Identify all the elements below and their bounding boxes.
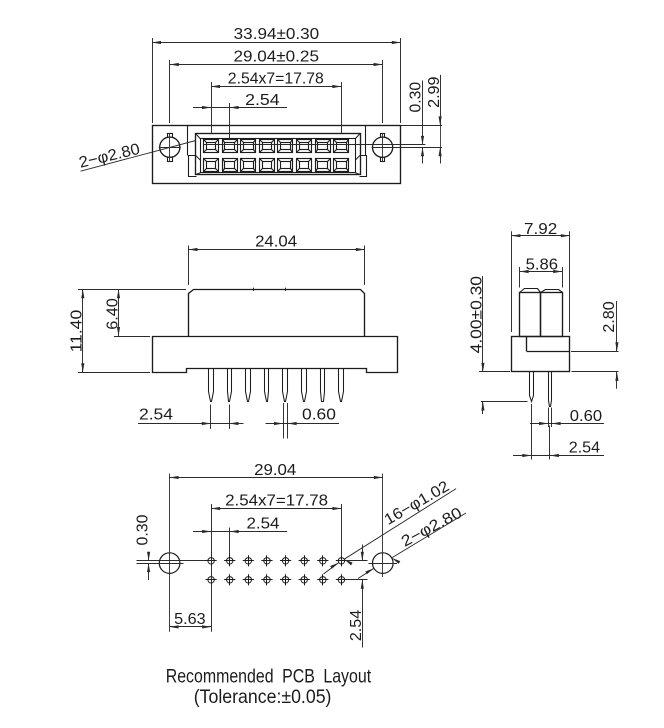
svg-text:7.92: 7.92 [524,221,557,238]
dimension 2.54x7=17.78 [211,82,213,133]
contact pin row2 col1 [204,159,219,172]
dimension 11.40 vertical [78,289,186,291]
contact pin row1 col5 [278,140,293,153]
svg-text:0.60: 0.60 [302,406,336,423]
dimension 4.00±0.30 vertical [479,371,510,373]
pcb pad row2 col4 [261,574,272,585]
dimension 2.99 vertical [440,75,442,126]
svg-text:11.40: 11.40 [69,310,86,353]
pcb right mounting hole [373,553,394,574]
dimension 2.54 pin pitch front [210,405,212,430]
front view insulator body [189,290,365,337]
pcb dimension 5.63 [170,626,212,628]
pcb pad row1 col6 [299,555,310,566]
front view solder pins [209,369,214,402]
svg-text:2.54: 2.54 [569,439,601,456]
pcb dimension 2.54 vertical [346,560,368,562]
row-1 pin centerline reference [204,144,426,146]
dimension 7.92 [511,231,513,332]
svg-text:2.54x7=17.78: 2.54x7=17.78 [228,70,324,87]
pcb left hole crosshair [137,563,184,565]
svg-text:4.00±0.30: 4.00±0.30 [469,276,486,353]
left mounting hole slot [168,134,173,162]
pcb pad row-1 centerline reference [137,560,212,562]
pcb pad row1 col5 [280,555,291,566]
pcb pad row1 col1 [206,555,217,566]
contact pin row1 col3 [241,140,256,153]
leader 2-ø2.80 to mounting holes [81,141,196,172]
side view tower left half [520,293,541,337]
top view flange outline [153,126,401,184]
svg-text:29.04±0.25: 29.04±0.25 [233,49,319,66]
svg-text:33.94±0.30: 33.94±0.30 [234,26,320,43]
svg-text:6.40: 6.40 [104,298,121,330]
svg-text:5.86: 5.86 [526,257,558,274]
pcb pad row2 col3 [243,574,254,585]
left mounting-hole pocket outline [187,126,189,156]
pcb pad row2 col2 [224,574,235,585]
side view left pin [530,372,534,402]
leader 16-ø1.02 diameter dim on pads [344,489,456,560]
dimension 0.60 pin width side [548,408,550,428]
dimension 33.94±0.30 [152,38,154,123]
mold marks on body top [253,288,255,291]
svg-text:2.54: 2.54 [245,92,280,109]
svg-text:2.54x7=17.78: 2.54x7=17.78 [225,493,328,510]
pcb pad row2 col8 [336,574,347,585]
dimension 0.60 pin width front [283,403,285,439]
contact pin row2 col5 [278,159,293,172]
housing corner bevels [195,133,200,138]
svg-text:(Tolerance:±0.05): (Tolerance:±0.05) [194,687,332,708]
svg-text:2.99: 2.99 [426,77,443,108]
dimension 6.40 vertical [114,336,150,338]
contact pin row1 col7 [316,140,331,153]
contact pin row1 col1 [204,140,219,153]
housing right key notch [360,156,367,177]
svg-text:0.30: 0.30 [408,82,425,113]
pcb pad row1 col8 [336,555,347,566]
contact pin row1 col6 [297,140,312,153]
pcb left mounting hole [159,553,180,574]
pcb right hole crosshair [369,563,398,565]
left hole crosshair [159,147,181,149]
contact pin row2 col4 [260,159,275,172]
svg-text:2.54: 2.54 [348,609,365,641]
dimension 2.80 vertical [571,351,619,353]
svg-text:5.63: 5.63 [174,611,206,628]
contact pin row2 col7 [316,159,331,172]
svg-text:2.54: 2.54 [247,516,280,533]
side view flange step [526,336,528,351]
pcb dimension 0.30 vertical [148,554,150,561]
pcb pad row2 col6 [299,574,310,585]
dimension 5.86 [519,267,521,288]
side view flange [512,337,570,372]
svg-text:0.60: 0.60 [570,408,602,425]
housing left key notch [189,156,197,177]
pcb pad row2 col1 [206,574,217,585]
pcb dimension 2.54x7=17.78 [211,504,213,632]
contact pin row2 col3 [241,159,256,172]
contact pin row1 col8 [334,140,349,153]
dimension 0.30 vertical [422,81,424,145]
contact pin row2 col8 [334,159,349,172]
svg-text:2.54: 2.54 [139,406,173,423]
flange top extension line right [401,125,442,127]
svg-text:24.04: 24.04 [255,234,297,251]
dimension 2.54 row pitch side [531,404,533,460]
pcb dimension 29.04 [170,477,383,479]
dimension 29.04±0.25 [169,60,171,123]
pcb pad row1 col2 [224,555,235,566]
pcb pad row1 col7 [317,555,328,566]
housing outer wall [196,134,361,175]
contact pin row1 col4 [260,140,275,153]
pcb pad row1 col4 [261,555,272,566]
leader 2-ø2.80 diameter dim on pcb holes [392,513,466,558]
pcb pad row2 col5 [280,574,291,585]
pcb dimension 2.54 [229,528,231,556]
right mounting-hole pocket outline [365,126,367,156]
front view flange with standoffs [153,337,398,373]
left mounting hole circle [160,137,180,157]
right mounting hole circle [373,137,393,157]
svg-text:Recommended PCB Layout: Recommended PCB Layout [166,666,372,687]
housing inner wall [201,139,356,173]
svg-text:0.30: 0.30 [135,515,152,546]
contact pin row1 col2 [223,140,238,153]
right mounting hole slot [381,134,385,162]
pcb pad row1 col3 [243,555,254,566]
dimension 2.54 pitch [229,103,231,139]
contact pin row2 col2 [223,159,238,172]
dimension 24.04 [188,246,190,286]
contact pin row2 col6 [297,159,312,172]
svg-text:2.80: 2.80 [601,301,618,332]
right hole crosshair / centerline extended right [372,147,442,149]
side view tower right half [541,293,563,337]
svg-text:29.04: 29.04 [254,462,297,479]
pcb pad row2 col7 [317,574,328,585]
side view right pin [549,372,552,407]
